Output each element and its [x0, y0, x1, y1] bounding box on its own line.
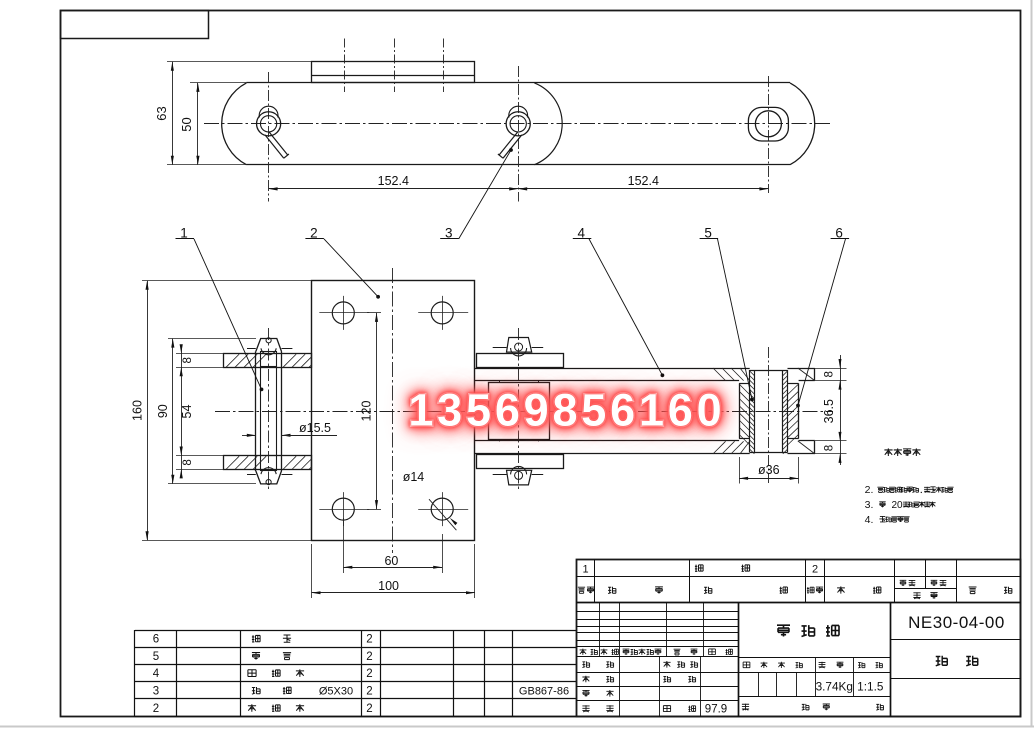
svg-text:54: 54 [180, 405, 194, 419]
pin 2 with cotter pin [498, 106, 530, 158]
svg-text:60: 60 [384, 554, 398, 568]
svg-text:2: 2 [366, 634, 372, 646]
right link bars [475, 368, 815, 454]
svg-text:2: 2 [366, 651, 372, 663]
dimension 50 [179, 83, 246, 165]
pin 1 with cotter pin [257, 106, 289, 158]
svg-text:3.74Kg: 3.74Kg [816, 680, 853, 694]
svg-text:120: 120 [360, 401, 374, 422]
svg-text:63: 63 [154, 106, 169, 120]
svg-text:ø36: ø36 [758, 463, 780, 477]
side view chain outer plate top edge [246, 82, 790, 84]
svg-text:4.: 4. [865, 514, 874, 526]
svg-text:152.4: 152.4 [628, 174, 659, 188]
svg-text:8: 8 [824, 371, 836, 377]
pin 1 centerline [268, 72, 270, 202]
svg-text:2: 2 [153, 703, 159, 715]
part callout 5 [700, 226, 754, 402]
svg-text:3.: 3. [865, 499, 874, 511]
chain horizontal centerline [204, 123, 833, 125]
svg-text:2.: 2. [865, 484, 874, 496]
svg-text:2: 2 [366, 685, 372, 697]
side view inner link plate end arc at pin 2 [534, 83, 562, 165]
attachment bolt centerlines [345, 39, 444, 93]
main view horizontal centerline [215, 411, 833, 413]
svg-text:8: 8 [182, 459, 194, 465]
svg-text:2: 2 [812, 564, 818, 576]
part callout 2 [305, 226, 380, 299]
title block [576, 560, 1021, 717]
svg-text:152.4: 152.4 [378, 174, 409, 188]
svg-text:ø14: ø14 [403, 470, 425, 484]
bushing sleeve [750, 370, 788, 454]
svg-text:8: 8 [182, 357, 194, 363]
technical requirements text [865, 448, 954, 526]
dimension 120 [360, 313, 379, 509]
svg-text:6: 6 [153, 634, 159, 646]
side view chain outer plate bottom edge [246, 164, 790, 166]
attachment plate on top of chain [311, 62, 475, 83]
roller [739, 383, 799, 445]
bar hatching near roller [713, 368, 815, 454]
dimension 54 and 8 8 [176, 344, 224, 478]
side view right end arc of link plate [790, 83, 815, 165]
dimension 36.5 and 8 8 right side [815, 355, 847, 465]
dimension dia 14 leader [403, 470, 458, 530]
part callout 1 [176, 226, 264, 392]
title block revision area [576, 602, 739, 717]
svg-text:Ø5X30: Ø5X30 [319, 686, 353, 698]
dimension dia 36 [739, 457, 799, 484]
svg-text:1:1.5: 1:1.5 [857, 680, 884, 694]
dimension 152.4 right pitch [518, 174, 768, 191]
dimension dia 15.5 [242, 421, 337, 437]
svg-text:GB867-86: GB867-86 [519, 686, 569, 698]
bracket plate vertical centerline [392, 268, 394, 553]
pin 3 hex bushing [748, 107, 788, 141]
svg-text:36.5: 36.5 [822, 399, 836, 423]
left link plates hatched section [224, 354, 312, 470]
svg-text:13569856160: 13569856160 [408, 384, 725, 435]
svg-text:90: 90 [156, 404, 170, 418]
bracket plate [312, 281, 475, 541]
svg-text:100: 100 [378, 579, 399, 593]
dimension 63 [154, 62, 311, 165]
dimension 60 [343, 518, 442, 573]
dimension 90 [156, 339, 256, 484]
part callout 4 [573, 226, 665, 378]
svg-text:NE30-04-00: NE30-04-00 [908, 613, 1005, 632]
svg-text:5: 5 [153, 651, 159, 663]
svg-text:2: 2 [366, 703, 372, 715]
dimension 160 [131, 281, 312, 541]
title block drawing number cell [891, 613, 1021, 679]
watermark phone number [408, 384, 725, 435]
dimension 100 [312, 544, 476, 598]
top-left accessory block [61, 11, 209, 39]
pin 1 vertical pin assembly [247, 328, 292, 490]
svg-text:2: 2 [366, 668, 372, 680]
plate holes [319, 296, 468, 526]
svg-text:20: 20 [891, 500, 903, 511]
svg-text:50: 50 [179, 117, 194, 131]
svg-text:8: 8 [824, 445, 836, 451]
dimension 152.4 left pitch [269, 174, 519, 191]
parts list table [135, 630, 577, 717]
svg-text:160: 160 [131, 400, 145, 421]
pin 3 centerline [768, 76, 770, 193]
svg-text:4: 4 [153, 668, 160, 680]
pin 2 assembly with roller [477, 328, 564, 490]
svg-text:3: 3 [153, 685, 159, 697]
svg-text:ø15.5: ø15.5 [299, 421, 331, 435]
svg-text:1: 1 [582, 564, 588, 576]
pin 2 centerline [518, 66, 520, 202]
roller vertical centerline [768, 347, 770, 483]
title block mark weight scale area [738, 602, 891, 717]
svg-text:97.9: 97.9 [705, 704, 727, 716]
side view left end arc of link plate [222, 83, 247, 165]
part callout 3 [440, 148, 513, 241]
part callout 6 [796, 226, 849, 408]
title block drawing name cell [777, 625, 839, 636]
